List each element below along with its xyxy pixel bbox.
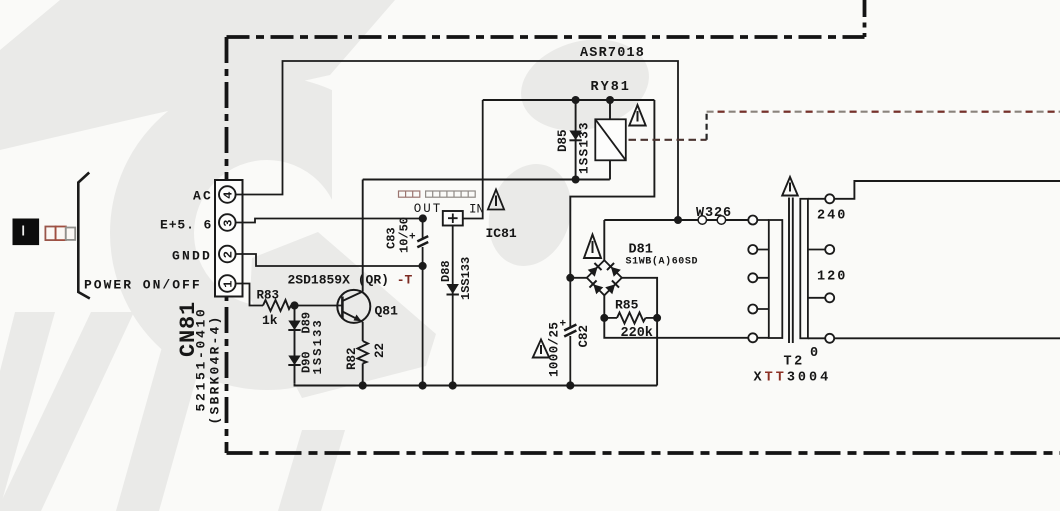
AC mains boundary (dash-dot border) [863, 0, 867, 37]
svg-text:GNDD: GNDD [172, 249, 212, 264]
svg-text:C82: C82 [577, 325, 591, 348]
svg-text:R82: R82 [345, 347, 359, 370]
svg-text:XTT3004: XTT3004 [754, 371, 832, 386]
node: R85 right [653, 314, 661, 322]
diode D85 [575, 100, 577, 180]
svg-text:1SS133: 1SS133 [311, 318, 325, 374]
wire: POWER ON/OFF pin1 to R83 [236, 284, 263, 306]
svg-text:0: 0 [810, 346, 818, 361]
wire: bridge left input [570, 277, 587, 279]
wire: AC pin4 to top rail and down to W326 node [236, 61, 678, 220]
transformer T2 secondary terminals [825, 194, 834, 342]
svg-text:C83: C83 [385, 227, 399, 249]
svg-text:D85: D85 [556, 129, 570, 152]
wire: Q81 collector up to relay line [362, 180, 364, 292]
svg-text:1000/25: 1000/25 [548, 322, 562, 377]
warning triangle near RY81 [629, 105, 645, 126]
transformer T2 primary terminals [748, 216, 757, 343]
pin 3 [219, 214, 236, 231]
svg-text:W326: W326 [696, 206, 732, 221]
svg-text:RY81: RY81 [591, 80, 631, 95]
svg-text:22: 22 [373, 343, 387, 358]
node: OUT junction [419, 214, 427, 222]
svg-text:R83: R83 [257, 289, 280, 303]
warning triangle near IC81 IN [488, 190, 504, 210]
wire: GNDD node down to ground rail [422, 266, 424, 386]
svg-text:4: 4 [222, 192, 236, 199]
svg-text:OUT: OUT [414, 202, 443, 216]
svg-text:1SS133: 1SS133 [459, 257, 473, 300]
transformer T2 primary winding [757, 220, 782, 338]
capacitor C82 [569, 278, 571, 329]
svg-text:D81: D81 [629, 243, 653, 258]
svg-text:2: 2 [222, 251, 236, 258]
wire: Q81 emitter to R82 [362, 322, 364, 341]
svg-text:S1WB(A)60SD: S1WB(A)60SD [626, 256, 699, 268]
transistor Q81 [337, 290, 370, 323]
warning triangle near T2 [782, 177, 798, 196]
node: R83 / base / D89 junction [290, 301, 298, 309]
jumper W326 pads [698, 216, 706, 224]
wire: E+5.6 pin3 to IC81 OUT [236, 219, 423, 223]
diode D90 [288, 356, 300, 366]
svg-text:1SS133: 1SS133 [578, 121, 592, 174]
small 3-pad connector icon [45, 227, 75, 241]
svg-text:1: 1 [222, 281, 236, 288]
wire: D89/D90 branch down to ground rail [294, 306, 296, 384]
svg-text:52151-0410: 52151-0410 [194, 306, 209, 411]
bridge rectifier D81 [603, 220, 605, 260]
node: D85 top [572, 96, 580, 104]
wire: GNDD pin2 to C83 bottom node [236, 254, 423, 266]
svg-text:D88: D88 [439, 260, 453, 282]
node: D88 on ground rail [449, 381, 457, 389]
svg-text:T2: T2 [784, 355, 805, 370]
node: C83 / GNDD junction [419, 262, 427, 270]
svg-text:240: 240 [817, 209, 847, 224]
transformer T2 secondary winding [800, 199, 825, 338]
node: C83 branch on ground rail [419, 381, 427, 389]
node: D85 bottom on coil drive line [572, 176, 580, 184]
svg-text:IC81: IC81 [486, 226, 517, 241]
wire: IC81 IN up to rectified supply line [463, 100, 483, 219]
warning triangle near C82 [533, 340, 549, 358]
wire: 0V tap to right edge [834, 337, 1060, 339]
svg-text:R85: R85 [615, 298, 639, 313]
wire: bridge right to ground rail [622, 278, 657, 386]
red dashed mains link from relay [629, 139, 707, 141]
svg-text:2SD1859X (QR) -T: 2SD1859X (QR) -T [288, 273, 413, 288]
wire: bridge bottom to R85 and transformer primary bottom [604, 295, 748, 338]
svg-text:Q81: Q81 [375, 304, 399, 319]
node: W326 junction [674, 216, 682, 224]
ground rail (bottom) [295, 384, 658, 386]
svg-text:(SBRK04R-4): (SBRK04R-4) [208, 314, 223, 424]
svg-text:IN: IN [469, 203, 484, 217]
node: bridge left / C82 junction [566, 274, 574, 282]
IC81 regulator box [443, 211, 463, 226]
svg-text:10/50: 10/50 [398, 217, 412, 253]
wire: 240V tap to right edge [834, 181, 1060, 199]
relay RY81 supply line [483, 99, 655, 101]
node: emitter/ground rail [359, 381, 367, 389]
bridge diodes [588, 263, 621, 294]
resistor R82 [358, 341, 369, 364]
pin 1 [219, 275, 236, 292]
svg-text:ASR7018: ASR7018 [580, 46, 645, 61]
svg-text:AC: AC [193, 189, 213, 204]
warning triangle near D81 [584, 235, 601, 259]
node: R85 left [600, 314, 608, 322]
diode D88 branch from IC81 to ground rail [452, 226, 454, 386]
resistor R83 [263, 300, 291, 311]
black PCB marker square [13, 219, 40, 246]
svg-text:3: 3 [222, 220, 236, 227]
svg-text:E+5. 6: E+5. 6 [160, 218, 212, 233]
wire: bridge + output to transformer primary (W326 link) [604, 219, 748, 221]
connector CN81 body [215, 180, 243, 297]
relay RY81 coil [609, 100, 611, 119]
svg-text:120: 120 [817, 270, 847, 285]
pin 2 [219, 246, 236, 263]
node: relay coil top [606, 96, 614, 104]
transformer T2 core [789, 198, 793, 344]
wire: relay drive line (collector to coil bottom) [363, 179, 610, 181]
svg-text:POWER ON/OFF: POWER ON/OFF [84, 278, 202, 293]
capacitor C83 (between OUT and GNDD) [422, 219, 424, 240]
pin 4 [219, 186, 236, 203]
dashed component outline squares above IC81 [399, 191, 476, 197]
resistor R85 [604, 317, 617, 319]
cable brace [78, 173, 90, 299]
node: C82 on ground rail [566, 381, 574, 389]
svg-text:1k: 1k [262, 313, 278, 328]
wire: relay contact to bridge input [570, 100, 654, 278]
svg-text:220k: 220k [621, 326, 653, 341]
diode D89 [288, 321, 300, 331]
